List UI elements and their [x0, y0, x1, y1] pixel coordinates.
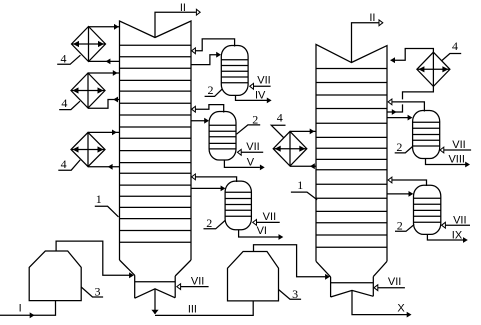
- svg-text:II: II: [180, 2, 186, 14]
- wire: D2 top to column 1: [88, 70, 120, 76]
- label I: [19, 303, 22, 315]
- wire: S1 vapor return to column 2: [388, 99, 424, 112]
- label 2 (S2 col1) with leader: [237, 113, 261, 135]
- column 2 shell (vacuum tower): [316, 44, 387, 261]
- svg-text:2: 2: [252, 113, 258, 127]
- wire: steam VII into S2 col1: [237, 141, 263, 155]
- svg-text:VII: VII: [246, 141, 259, 153]
- wire: column 2 to D5 bottom (stepped): [387, 86, 433, 115]
- column 2 bottom cone and boot: [316, 261, 387, 297]
- wire: steam VII into column 2 bottom: [374, 276, 405, 290]
- wire: product V from S2 col1: [224, 156, 264, 170]
- side stripper S1 column 1: [221, 46, 248, 96]
- wire: bottoms line X from column 2: [352, 290, 412, 317]
- wire: product VI from S3 col1: [239, 225, 284, 240]
- label 2 (S1 col2) with leader: [395, 140, 413, 154]
- wire: product IV from S1 col1: [236, 89, 272, 103]
- column 2 tray lines: [316, 69, 387, 248]
- wire: S2 vapor return to column 1 (stepped): [192, 105, 224, 113]
- label III: [188, 304, 197, 316]
- svg-text:VII: VII: [257, 75, 270, 87]
- wire: steam VII into S1 col2: [440, 139, 471, 153]
- svg-text:IV: IV: [255, 89, 266, 101]
- wire: D3 top to column 1: [88, 130, 120, 136]
- wire: S1 vapor return to column 1: [192, 39, 235, 54]
- svg-text:4: 4: [61, 157, 67, 171]
- label 2 (S3 col1) with leader: [204, 216, 226, 230]
- wire: column 1 draw to S2: [191, 118, 209, 124]
- svg-text:VI: VI: [257, 225, 267, 237]
- side stripper S2 column 1: [209, 112, 236, 161]
- wire: S3 vapor return to column 1: [192, 174, 237, 182]
- svg-text:2: 2: [206, 216, 212, 230]
- label II column 2: [369, 12, 375, 24]
- svg-text:2: 2: [397, 219, 403, 233]
- svg-text:II: II: [369, 12, 375, 24]
- column 1 tray lines: [120, 45, 192, 242]
- svg-text:VIII: VIII: [448, 153, 465, 165]
- wire: S2 vapor return to column 2: [388, 177, 426, 186]
- side stripper S3 column 1: [225, 181, 251, 230]
- filled arrow transfer line 1: [129, 272, 134, 278]
- wire: column 2 draw to S2: [387, 191, 413, 197]
- svg-text:4: 4: [452, 39, 458, 53]
- open arrow II column 2: [379, 20, 383, 26]
- label 3 furnace 1 with leader: [81, 285, 103, 299]
- wire: steam VII into S2 col2: [442, 214, 470, 228]
- side stripper S2 column 2: [414, 185, 441, 234]
- svg-text:VII: VII: [452, 139, 465, 151]
- wire: column 1 to D1 bottom: [89, 59, 120, 65]
- svg-text:VII: VII: [388, 276, 401, 288]
- furnace 3 (right): [228, 252, 279, 301]
- filled arrow transfer line 2: [325, 274, 330, 280]
- wire: steam VII into S3 col1: [253, 211, 280, 225]
- filled arrow down on line III: [151, 310, 158, 314]
- wire: column 1 draw to S1 (stepped): [191, 52, 221, 65]
- wire: D5 top to column 2 (stepped): [390, 49, 433, 64]
- air cooler 4 (D1): [72, 27, 106, 62]
- svg-text:III: III: [188, 304, 197, 316]
- label 4 (D2) with leader: [59, 96, 80, 110]
- wire: overhead vapor line II column 1: [155, 12, 196, 37]
- open arrow II column 1: [196, 9, 200, 15]
- svg-text:VII: VII: [453, 214, 466, 226]
- wire: furnace 2 transfer line to column 2: [254, 245, 326, 277]
- label 2 (S2 col2) with leader: [395, 219, 414, 233]
- label 3 furnace 2 with leader: [279, 287, 302, 301]
- svg-text:I: I: [19, 303, 22, 315]
- label 4 (D3) with leader: [58, 157, 80, 171]
- label 4 (D4) with leader: [271, 110, 285, 137]
- wire: steam VII into S1 col1: [250, 75, 271, 90]
- wire: column 2 to D4 bottom: [290, 163, 316, 169]
- wire: product IX from S2 col2: [427, 229, 467, 243]
- svg-text:IX: IX: [452, 229, 463, 241]
- filled arrow feed I: [30, 312, 35, 318]
- label 2 (S1 col1) with leader: [205, 83, 223, 97]
- wire: D4 top to column 2: [290, 129, 316, 135]
- wire: furnace 1 transfer line to column 1: [56, 241, 129, 275]
- column 1 shell (atmospheric tower): [120, 21, 192, 260]
- air cooler 4 (D5): [417, 52, 450, 86]
- wire: bottoms line III from column 1 to furnace 2: [155, 289, 253, 316]
- svg-text:VII: VII: [191, 275, 204, 287]
- wire: column 1 to D3 bottom: [88, 164, 120, 170]
- label 4 (D5) with leader: [442, 39, 461, 60]
- wire: overhead vapor line II column 2: [352, 23, 379, 63]
- air cooler 4 (D2): [71, 73, 105, 108]
- svg-text:4: 4: [61, 96, 67, 110]
- wire: column 1 to D2 bottom (stepped): [88, 97, 120, 109]
- furnace 3 (left): [29, 251, 81, 301]
- wire: column 2 draw to S1: [387, 115, 412, 121]
- svg-text:1: 1: [297, 178, 303, 192]
- air cooler 4 (D4): [273, 131, 307, 166]
- svg-text:3: 3: [292, 287, 298, 301]
- wire: product VIII from S1 col2: [426, 153, 471, 167]
- svg-text:3: 3: [95, 285, 101, 299]
- svg-text:V: V: [247, 156, 255, 168]
- wire: feed line I into furnace: [0, 301, 56, 316]
- column 1 bottom cone and boot: [120, 260, 192, 298]
- label 4 (D1) with leader: [57, 51, 80, 65]
- air cooler 4 (D3): [71, 132, 105, 166]
- svg-text:2: 2: [396, 140, 402, 154]
- svg-text:X: X: [397, 303, 405, 315]
- svg-text:VII: VII: [263, 211, 276, 223]
- wire: column 1 draw to S3: [191, 186, 225, 192]
- label 1 column 1 with leader: [95, 192, 119, 217]
- label II column 1: [180, 2, 186, 14]
- side stripper S1 column 2: [413, 111, 440, 159]
- svg-text:4: 4: [61, 51, 67, 65]
- wire: D1 top to column 1: [89, 24, 120, 30]
- svg-text:1: 1: [96, 192, 102, 206]
- label 1 column 2 with leader: [291, 178, 317, 200]
- svg-text:4: 4: [277, 110, 283, 124]
- svg-text:2: 2: [208, 83, 214, 97]
- wire: steam VII into column 1 bottom: [177, 275, 209, 289]
